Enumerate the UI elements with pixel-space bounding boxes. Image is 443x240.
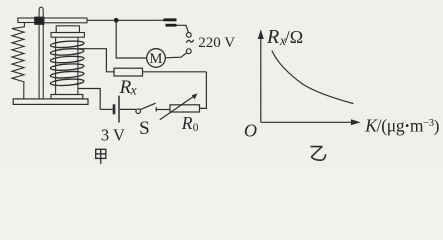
resistor Rx xyxy=(114,68,143,76)
wire: junction down to motor xyxy=(116,20,147,58)
beam right bar xyxy=(44,18,87,23)
coil turn 5 xyxy=(50,71,84,79)
wire: R0 left to switch contact xyxy=(156,109,170,111)
coil cylinder xyxy=(55,37,57,94)
graph: curve xyxy=(272,51,354,104)
wire: Rx right to rail xyxy=(143,71,207,73)
svg-text:O: O xyxy=(244,120,257,140)
wire: beam to contact xyxy=(87,19,164,21)
wire: lower contact to terminal xyxy=(177,25,189,32)
coil turn 1 xyxy=(50,40,84,48)
contact bar lower xyxy=(166,24,177,27)
svg-text:S: S xyxy=(139,118,150,139)
graph: y-axis xyxy=(260,38,262,123)
core plate xyxy=(51,33,84,38)
terminal circle upper xyxy=(186,33,191,38)
rheostat R0 xyxy=(170,105,200,112)
wire: right rail xyxy=(200,72,207,109)
svg-text:/Ω: /Ω xyxy=(285,27,303,47)
beam left bar xyxy=(18,18,35,23)
tilde ~ xyxy=(186,40,193,43)
label yi (乙) xyxy=(311,147,326,161)
wire: coil top terminal to Rx xyxy=(78,49,114,72)
contact bar upper xyxy=(164,18,177,21)
label jia (甲) xyxy=(96,149,106,164)
wire: coil bottom terminal to battery xyxy=(78,89,100,110)
switch pivot circle xyxy=(136,109,141,114)
junction dot xyxy=(114,18,119,23)
rheostat arrow xyxy=(160,96,195,120)
coil turn 6 xyxy=(50,78,84,86)
coil plinth xyxy=(51,95,83,99)
battery short plate xyxy=(113,104,116,114)
pivot block xyxy=(35,17,44,24)
coil turn 2 xyxy=(50,48,84,56)
spring xyxy=(12,23,24,99)
svg-text:x: x xyxy=(130,83,137,98)
motor circle xyxy=(147,49,166,68)
wire: motor to lower terminal xyxy=(165,53,187,58)
switch fixed contact tick xyxy=(155,107,157,111)
svg-text:3 V: 3 V xyxy=(101,125,125,144)
svg-text:220 V: 220 V xyxy=(198,35,235,51)
base plate xyxy=(13,99,88,105)
svg-text:M: M xyxy=(150,51,163,67)
terminal circle lower xyxy=(186,49,191,54)
battery long plate xyxy=(118,96,120,123)
coil turn 4 xyxy=(50,63,84,71)
svg-text:R: R xyxy=(266,26,279,48)
wire: battery to switch xyxy=(120,108,136,110)
graph: x-axis xyxy=(261,121,353,123)
svg-text:R: R xyxy=(181,113,193,133)
iron core top block xyxy=(56,26,79,33)
support pillar xyxy=(39,7,43,99)
switch lever xyxy=(140,103,155,110)
svg-text:0: 0 xyxy=(193,122,199,134)
wire: battery left xyxy=(100,108,112,110)
coil turn 3 xyxy=(50,55,84,63)
